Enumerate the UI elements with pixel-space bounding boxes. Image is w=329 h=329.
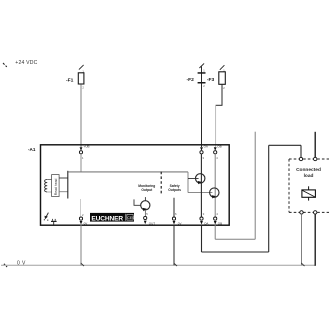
junction load A 0V bbox=[301, 263, 304, 266]
fuse F1 bbox=[78, 73, 84, 84]
wire OB path right bbox=[215, 238, 255, 240]
wire OA to load terminal bbox=[300, 145, 302, 157]
svg-text:Read head: Read head bbox=[54, 178, 58, 195]
svg-text:Output: Output bbox=[141, 188, 153, 192]
EUCHNER logo bbox=[90, 213, 135, 222]
terminal OB circle bbox=[214, 151, 217, 154]
wire 0V left drop bbox=[80, 225, 82, 265]
svg-text:load: load bbox=[304, 173, 314, 179]
ground arrow symbol bbox=[46, 213, 48, 217]
wire read head bus vertical bbox=[67, 171, 69, 199]
wire OA path down bbox=[201, 225, 203, 252]
terminal F2 bar 2 bbox=[198, 82, 206, 84]
junction 0V left bbox=[81, 263, 84, 266]
terminal OA out circle bbox=[200, 217, 203, 220]
svg-text:Outputs: Outputs bbox=[168, 188, 181, 192]
wire OB path up bbox=[254, 132, 256, 240]
wire 0V internal faint bbox=[80, 199, 82, 216]
wire collector T1 from OA bbox=[200, 154, 202, 217]
wire load B to 0V bbox=[314, 214, 316, 266]
svg-text:0V: 0V bbox=[84, 221, 88, 225]
svg-text:-F1: -F1 bbox=[66, 77, 74, 83]
load terminal bottom B bbox=[314, 211, 317, 214]
terminal F2 tap slash bbox=[199, 63, 204, 68]
wire F3 jog left bbox=[216, 104, 223, 106]
terminal OA out arrow bbox=[200, 221, 203, 225]
connected load dashed box bottom bbox=[289, 211, 329, 213]
terminal +UB circle bbox=[79, 151, 82, 154]
wire T3 base L bbox=[134, 199, 141, 205]
wire collector T2 from OB bbox=[214, 154, 216, 217]
node +24VDC rail tap mark bbox=[3, 63, 7, 67]
read head box bbox=[52, 175, 60, 197]
junction 0V mid bbox=[174, 263, 177, 266]
ground chassis symbol bbox=[51, 219, 53, 221]
load terminal top B bbox=[314, 157, 317, 160]
load terminal top A bbox=[299, 157, 302, 160]
wire load A to 0V bbox=[301, 214, 303, 265]
terminal 0V mid arrow bbox=[173, 221, 176, 225]
svg-text:OB: OB bbox=[218, 221, 222, 225]
terminal 0V mid circle bbox=[172, 217, 175, 220]
terminal OA circle bbox=[200, 151, 203, 154]
evaluation unit A1 box bbox=[41, 145, 230, 225]
connected load dashed box left bbox=[288, 159, 290, 212]
svg-text:-F3: -F3 bbox=[207, 77, 215, 83]
terminal 0V left circle bbox=[79, 217, 82, 220]
svg-text:OUT: OUT bbox=[149, 221, 156, 225]
svg-text:+UB: +UB bbox=[84, 145, 90, 149]
dashed divider bbox=[160, 172, 162, 195]
terminal OB out circle bbox=[214, 217, 217, 220]
transistor T2 bbox=[210, 188, 219, 197]
terminal OA arrow bbox=[200, 147, 203, 150]
node 0V rail tap mark bbox=[4, 264, 7, 267]
wire F3 to terminal OB bbox=[215, 105, 217, 147]
read head coil bbox=[45, 179, 48, 192]
wire F2 feed to terminal OA bbox=[201, 67, 203, 148]
wire OA path up bbox=[268, 145, 270, 252]
wire 0V rail bbox=[1, 264, 315, 266]
svg-text:-F2: -F2 bbox=[187, 77, 195, 83]
relay coil K bottom stub bbox=[308, 197, 310, 200]
terminal OB arrow bbox=[214, 147, 217, 150]
load terminal bottom A bbox=[300, 211, 303, 214]
transistor T1 bbox=[196, 174, 205, 183]
wire read head stub 1 bbox=[59, 177, 68, 179]
wire terminal +UB to bus bbox=[80, 154, 82, 172]
svg-text:OB: OB bbox=[217, 145, 221, 149]
svg-text:CES: CES bbox=[127, 216, 135, 220]
wire F3 down bbox=[221, 84, 223, 105]
svg-text:-A1: -A1 bbox=[28, 147, 36, 152]
connected load dashed box top bbox=[289, 158, 329, 160]
svg-text:OA: OA bbox=[204, 221, 208, 225]
wire T3 emitter to terminal bbox=[144, 210, 146, 216]
svg-text:OA: OA bbox=[204, 145, 208, 149]
terminal 0V left arrow bbox=[80, 221, 83, 225]
terminal +UB arrow bbox=[80, 147, 83, 150]
wire 0V mid drop bbox=[173, 225, 175, 265]
wire internal bus horizontal bbox=[68, 171, 188, 173]
wire OA path top right bbox=[269, 144, 301, 146]
terminal OUT arrow bbox=[144, 221, 147, 225]
terminal OUT circle bbox=[144, 216, 147, 219]
svg-text:EUCHNER: EUCHNER bbox=[91, 215, 123, 222]
relay coil K top stub bbox=[308, 186, 310, 190]
wire +24V hanging feed bbox=[314, 132, 316, 158]
fuse F3 tap slash bbox=[220, 65, 225, 70]
svg-text:0V: 0V bbox=[178, 222, 182, 226]
wire base T1 bbox=[188, 178, 199, 180]
wire F1 to terminal +UB bbox=[80, 84, 82, 147]
terminal OB out arrow bbox=[214, 221, 217, 225]
wire bus drop right bbox=[187, 172, 189, 193]
wire T3 collector stub bbox=[144, 197, 146, 201]
wire safety outputs to 0V terminal bbox=[173, 198, 175, 217]
terminal F2 bar 1 bbox=[198, 72, 206, 74]
wire OA path right bbox=[202, 251, 269, 253]
fuse F1 tap slash bbox=[79, 65, 84, 70]
wire read head stub 2 bbox=[59, 191, 68, 193]
transistor T3 monitoring output bbox=[141, 201, 150, 210]
wire OB path down bbox=[214, 225, 216, 240]
fuse F3 bbox=[219, 72, 226, 85]
wire base T2 bbox=[188, 192, 212, 194]
svg-text:+24 VDC: +24 VDC bbox=[15, 60, 37, 66]
svg-text:Connected: Connected bbox=[296, 167, 321, 173]
relay coil K bbox=[302, 190, 316, 197]
